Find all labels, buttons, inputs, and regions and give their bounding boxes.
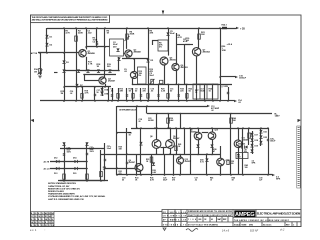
wire Q10 collector up [212, 128, 214, 132]
junction fb87 82 [81, 86, 83, 88]
wire Q10 emitter [212, 140, 214, 155]
wire QA base [105, 168, 135, 170]
diode D9 [146, 59, 149, 62]
diode D25 [244, 145, 247, 148]
svg-text:+15.6: +15.6 [227, 44, 233, 46]
diode D6A [108, 69, 111, 72]
junction Q13 top [179, 154, 181, 156]
junction gnd row 6 [147, 100, 149, 102]
wire box A top link [105, 46, 110, 48]
bias diode box [236, 153, 248, 159]
svg-text:STD ISSUE 2-70: STD ISSUE 2-70 [163, 224, 186, 226]
junction gnd row 5 [140, 100, 142, 102]
svg-text:ELEC-TRICAL AMP AND ELECT SCHE: ELEC-TRICAL AMP AND ELECT SCHEM [257, 212, 301, 216]
svg-text:14 x 6: 14 x 6 [222, 229, 230, 233]
junction C26 gnd [267, 174, 269, 176]
wire lower mid rail [131, 128, 268, 130]
svg-text:SCALE: SCALE [234, 223, 241, 226]
diode D7B [100, 92, 103, 95]
svg-text:CK R.JONES 6-6-68: CK R.JONES 6-6-68 [163, 216, 186, 218]
junction lower top [146, 105, 148, 107]
svg-text:SD-121-5C: SD-121-5C [263, 224, 272, 226]
svg-text:D13: D13 [54, 173, 57, 175]
wire Q9 collector up [170, 128, 172, 140]
junction out stub [219, 76, 221, 78]
junction Q6 emitter rail [175, 84, 177, 86]
junction mid 243 [242, 127, 244, 129]
wire bias rail A [64, 70, 119, 72]
wire feedback drop 1 [82, 87, 84, 101]
junction Q9 emitter [197, 154, 199, 156]
wire QA collector [140, 128, 142, 164]
transistor Q12 [217, 158, 225, 166]
wire R3 branch [96, 28, 98, 47]
wire Q11 emitter [238, 148, 240, 176]
junction R19 rail [184, 84, 186, 86]
wire feedback drop 2 [94, 87, 96, 101]
junction stage2 bias [118, 70, 120, 72]
svg-text:R24 2: R24 2 [222, 24, 227, 27]
capacitor gnd row 5 [178, 95, 180, 96]
wire R4 branch [126, 28, 128, 49]
capacitor C20 [63, 154, 65, 155]
trim pot R4 [126, 34, 129, 39]
capacitor C19 [126, 162, 128, 163]
svg-text:D22: D22 [264, 137, 267, 139]
wire rectifier left leg [64, 143, 66, 182]
diode D14 [74, 160, 77, 163]
wire gnd row drop 5 [140, 88, 142, 101]
wire ZD1 drop [206, 154, 208, 175]
svg-text:D21: D21 [264, 132, 267, 134]
junction mid drop 2 [183, 127, 185, 129]
wire Q9 collector up [198, 128, 200, 132]
junction Q4 top [133, 58, 135, 60]
svg-text:51: 51 [45, 225, 47, 227]
junction Q8 gnd [156, 153, 158, 155]
resistor gnd row 1 [117, 94, 119, 99]
junction C5 top [167, 27, 169, 29]
wire gnd row drop R3 [178, 84, 180, 101]
junction R2 top [75, 27, 77, 29]
wire gain pot branch [40, 53, 42, 75]
svg-text:C4: C4 [52, 224, 54, 227]
svg-text:R1347K: R1347K [120, 89, 124, 93]
wire output stub [220, 76, 235, 78]
wire R40 branch [230, 114, 232, 176]
wire Q3 base [84, 80, 99, 82]
diode D11 top tap [85, 142, 88, 145]
wire C19 drop [126, 128, 128, 175]
svg-text:AC HI: AC HI [44, 161, 50, 164]
junction mid 155 [154, 127, 156, 129]
junction gnd row R3 [178, 100, 180, 102]
junction bottom 1 [136, 174, 138, 176]
diode D4 [77, 69, 80, 72]
wire Q2 emitter drop [126, 57, 128, 59]
wire R43 branch [248, 128, 250, 145]
capacitor C26 [267, 139, 269, 140]
transistor Q10 [208, 132, 216, 140]
wire gnd row drop 1 [112, 88, 114, 101]
title block text [163, 210, 295, 226]
diode D5 [86, 69, 89, 72]
wire Q5 emitter [164, 65, 166, 84]
wire gnd row drop 4 [132, 88, 134, 101]
diode D22 [259, 135, 262, 138]
svg-text:04: 04 [52, 212, 54, 215]
junction bridge R1 [86, 161, 88, 163]
wire mid drop 1 [176, 128, 178, 155]
wire R42 branch [242, 128, 244, 175]
resistor R32 [100, 172, 103, 177]
transistor Q9 [166, 140, 175, 149]
junction psu bottom1 [63, 180, 65, 182]
lamp LM1 box [110, 39, 124, 56]
svg-text:DO NOT SCALE THIS DRAWING: DO NOT SCALE THIS DRAWING [188, 223, 219, 226]
svg-text:7: 7 [52, 216, 53, 218]
wire Q1 collector [86, 28, 88, 49]
wire AC HI stub [50, 161, 87, 163]
svg-text:22: 22 [35, 216, 37, 218]
junction gnd row 1 [111, 100, 113, 102]
check mark below title [163, 228, 166, 231]
junction fb 108 [107, 100, 109, 102]
junction C23 top [156, 113, 158, 115]
wire pair mid drop [163, 148, 165, 155]
junction gnd row 3 [126, 100, 128, 102]
junction y133 [116, 132, 118, 134]
wire rectifier right leg [86, 143, 88, 182]
wire Q12 collector [220, 146, 222, 158]
resistor R18b [81, 94, 83, 99]
svg-text:Q8: Q8 [150, 136, 152, 138]
wire lower ground rail [117, 174, 272, 176]
junction fb87 95 [94, 86, 96, 88]
svg-text:DIMENSIONS ARE IN INCHES TOL U: DIMENSIONS ARE IN INCHES TOL UNLESS NOTE… [188, 210, 233, 213]
junction out top [219, 27, 221, 29]
wire B+ rail [147, 113, 272, 115]
svg-text:Q10: Q10 [215, 130, 219, 132]
svg-text:51: 51 [31, 216, 33, 218]
junction Q4 emitter [132, 84, 134, 86]
junction R5 top [104, 27, 106, 29]
wire driver rail [132, 84, 232, 86]
junction QA top [140, 127, 142, 129]
diode D3 [62, 60, 65, 63]
right margin vertical note [297, 126, 300, 188]
junction lower left gnd [116, 174, 118, 176]
transistor Q13 [177, 157, 184, 164]
junction ZD1 top [206, 153, 208, 155]
wire bottom drop 3 [164, 154, 166, 175]
diode D10 [166, 32, 169, 35]
svg-text:D18: D18 [255, 140, 258, 142]
svg-text:AND SHALL NOT BE REPRODUCED OR: AND SHALL NOT BE REPRODUCED OR USED WITH… [32, 19, 109, 22]
capacitor gnd row 1 [111, 95, 113, 96]
transistor Q4 [130, 71, 137, 78]
resistor R41 [175, 146, 177, 151]
svg-text:12: 12 [52, 222, 54, 224]
wire Q7 branch [198, 28, 200, 48]
junction feedback left [63, 86, 65, 88]
resistor gnd row 2 [132, 94, 134, 99]
transistor Q6 [135, 164, 143, 172]
svg-text:( ) 1/2W: ( ) 1/2W [221, 86, 228, 88]
svg-text:THE AMPEG COMPANY INC LINDEN: THE AMPEG COMPANY INC LINDEN NEW JERSEY [234, 219, 290, 222]
wire pair link [161, 147, 167, 149]
wire A2 drop [116, 106, 118, 175]
driver transformer T1 box [193, 84, 218, 99]
diode D1 [45, 35, 48, 38]
junction R43 top [248, 127, 250, 129]
diode D23 [259, 141, 262, 144]
svg-text:AC LO: AC LO [44, 168, 51, 171]
svg-text:D19: D19 [255, 146, 258, 148]
junction lower left [116, 154, 118, 156]
diode D21 [259, 130, 262, 133]
junction mid 198 [197, 127, 199, 129]
capacitor C2 [96, 43, 98, 44]
junction bridge L1 [63, 161, 65, 163]
AMPEG logo box [234, 210, 255, 217]
svg-text:04: 04 [45, 218, 47, 221]
wire diode chain A [252, 131, 254, 154]
arrow A2 [207, 105, 210, 107]
wire Q11 collector [238, 128, 240, 140]
junction psu bottom2 [86, 180, 88, 182]
wire C21b branch [104, 143, 106, 181]
title block grid [162, 210, 301, 227]
resistor R31b [86, 174, 89, 179]
svg-text:D24 D25: D24 D25 [238, 143, 245, 146]
diode D7 [75, 84, 78, 87]
capacitor C17 [94, 94, 96, 95]
wire Q8 collector up [156, 128, 158, 140]
junction input-gain [39, 52, 41, 54]
junction C1 top [85, 27, 87, 29]
wire PSU top rail [60, 148, 105, 150]
wire output branch [220, 28, 222, 101]
junction gnd row R5 [204, 100, 206, 102]
wire PSU bottom rail [60, 180, 105, 182]
svg-text:R1: R1 [42, 225, 44, 227]
junction QA gnd [140, 174, 142, 176]
svg-text:D12: D12 [54, 158, 57, 160]
svg-text:+ 28: + 28 [240, 27, 245, 30]
svg-text:DWG: DWG [249, 224, 254, 226]
junction chain B top [260, 127, 262, 129]
revision table bottom left [31, 212, 54, 227]
junction QA base [104, 167, 106, 169]
bias network box [138, 67, 147, 84]
transistor Q8 [152, 140, 161, 149]
junction fb 95 [94, 100, 96, 102]
wire QA emitter [140, 171, 142, 175]
left fold mark [31, 119, 35, 122]
junction bias rail end [109, 70, 111, 72]
svg-text:R42100: R42100 [245, 164, 248, 169]
wire mid drop 2 [184, 128, 186, 155]
junction R42 gnd [242, 174, 244, 176]
junction out gnd [219, 100, 221, 102]
diode D17 [250, 133, 253, 136]
wire Q9-Q10 base link [202, 132, 208, 134]
arrow +28V [236, 27, 239, 29]
transformer T1 core [206, 84, 208, 99]
border frame [31, 15, 302, 227]
junction bottom 4 [173, 174, 175, 176]
resistor R16 small box [160, 80, 163, 83]
wire gnd row drop R5 [204, 84, 206, 101]
wire C14 stub [218, 100, 234, 102]
diode D8 in box [116, 48, 119, 51]
wire Q4 emitter [132, 79, 134, 85]
junction gnd row T2 [167, 84, 169, 86]
wire R5 branch [104, 28, 106, 71]
diode D3b [62, 69, 65, 72]
svg-text:ck 2: ck 2 [280, 229, 285, 232]
wire feedback rail [64, 86, 111, 88]
junction mid drop 1 [175, 127, 177, 129]
svg-text:NONE: NONE [242, 224, 248, 226]
svg-text:22: 22 [35, 213, 37, 215]
diode D6 [97, 69, 100, 72]
junction C23 rail [156, 127, 158, 129]
junction B+ 180 [180, 113, 182, 115]
junction bridge R2 [86, 168, 88, 170]
resistor R31a [63, 174, 66, 179]
thermistor box RT1 [158, 40, 168, 51]
wire y133 link [117, 132, 131, 134]
wire D1 D2 branch [46, 28, 48, 53]
wire Q8 emitter drop [156, 148, 158, 154]
top center fold mark [162, 11, 164, 15]
wire R8 branch [176, 33, 178, 63]
wire stage2 drop [118, 57, 120, 71]
transistor Q6 [172, 63, 179, 70]
transistor Q11 [234, 140, 242, 148]
svg-text:12: 12 [42, 213, 44, 215]
proprietary note box [31, 15, 110, 23]
junction R6 gnd [147, 100, 149, 102]
junction gnd row R2 [167, 100, 169, 102]
svg-text:REF: REF [223, 219, 226, 221]
wire box B stub [152, 40, 154, 45]
wire C5 branch [168, 28, 170, 56]
svg-text:R22220: R22220 [180, 89, 184, 93]
wire C23 drop [156, 114, 158, 129]
junction gnd row R1 [158, 100, 160, 102]
junction mid drop 3 [189, 127, 191, 129]
junction mid 170 [169, 127, 171, 129]
svg-text:AMPEG: AMPEG [235, 212, 254, 218]
svg-text:04: 04 [49, 215, 51, 218]
junction B+ right [230, 113, 232, 115]
svg-text:R45OS2: R45OS2 [237, 153, 240, 158]
wire lower top rail [117, 106, 207, 108]
capacitor gnd row 4 [157, 95, 159, 96]
diode D17b [152, 162, 155, 165]
wire bottom drop 4 [173, 154, 175, 175]
wire Q9 emitter drop [170, 148, 172, 154]
transistor Q1 [79, 50, 86, 57]
wire R32 branch [100, 150, 102, 181]
junction R41 rail [175, 154, 177, 156]
wire gnd row drop R2 [168, 84, 170, 101]
svg-text:.005: .005 [198, 219, 201, 221]
wire R36 drop [168, 114, 170, 129]
svg-text:e c. 1: e c. 1 [30, 228, 37, 232]
wire C6 link [176, 44, 190, 46]
junction C26 top [267, 127, 269, 129]
junction gnd row T5 [204, 84, 206, 86]
wire D3 stub [54, 72, 58, 74]
junction Q12 gnd [220, 174, 222, 176]
wire box B left link [152, 40, 158, 42]
svg-text:1/2: 1/2 [204, 219, 206, 221]
resistor R2 [75, 36, 78, 41]
arrow C14 out [234, 100, 237, 102]
wire bottom drop 1 [136, 154, 138, 175]
wire +28V top rail [47, 28, 236, 30]
junction R5 link [104, 46, 106, 48]
svg-text:AP L.WARD 6-8-68: AP L.WARD 6-8-68 [163, 219, 186, 222]
wire bottom strip line [54, 211, 162, 213]
junction input node [46, 52, 48, 54]
junction bottom 3 [164, 174, 166, 176]
junction R36 rail [167, 127, 169, 129]
wire lower bias rail [101, 154, 221, 156]
trim pot R4 arrow [125, 36, 130, 41]
junction R1 input [63, 52, 65, 54]
junction gnd row R6 [212, 100, 214, 102]
wire feedback drop 3 [108, 87, 110, 101]
junction QA base2 [116, 167, 118, 169]
junction gnd row R4 [186, 100, 188, 102]
wire ACT IN stub [38, 52, 47, 54]
fuse F1 [222, 27, 227, 29]
junction C18 top [136, 105, 138, 107]
potentiometer R16 GAIN [39, 69, 42, 74]
capacitor C21b [104, 159, 106, 160]
svg-text:22: 22 [49, 213, 51, 215]
wire gnd row drop 2 [118, 88, 120, 101]
wire gnd row drop 6 [148, 88, 150, 101]
diode D24 [238, 145, 241, 148]
diode D2 [45, 43, 48, 46]
svg-text:22: 22 [42, 216, 44, 218]
junction C18 rail [136, 127, 138, 129]
junction R40 gnd [230, 174, 232, 176]
capacitor gnd row 3 [140, 95, 142, 96]
capacitor gnd row 2 [126, 95, 128, 96]
svg-text:ACT IN: ACT IN [31, 52, 38, 55]
wire gnd row drop 3 [126, 88, 128, 101]
signature squiggle [186, 229, 198, 232]
proprietary note text [32, 16, 109, 22]
diode D18 [250, 138, 253, 141]
ground gain pot [38, 76, 42, 78]
resistor gnd row 4 [167, 94, 169, 99]
wire mid drop 3 [190, 128, 192, 175]
svg-text:04: 04 [31, 221, 33, 224]
diode D20 [250, 149, 253, 152]
diode D19 [250, 144, 253, 147]
capacitor C21 [86, 153, 88, 154]
junction Q3 gnd [104, 86, 106, 88]
junction R6 rail [147, 58, 149, 60]
